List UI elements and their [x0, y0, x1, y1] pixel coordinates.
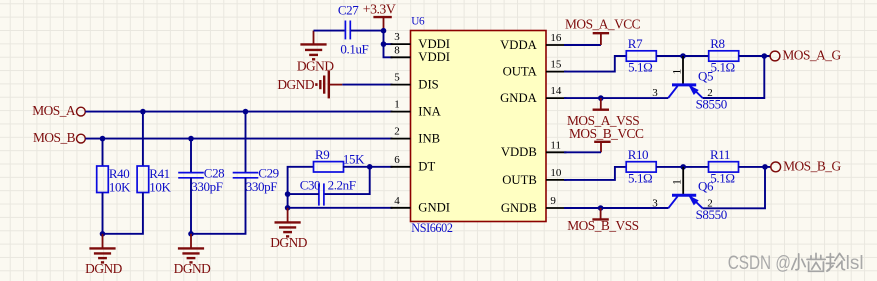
port MOS_B	[33, 130, 85, 145]
pin 5 DIS	[391, 72, 439, 92]
wire	[739, 55, 771, 57]
svg-text:DGND: DGND	[277, 77, 315, 92]
junction	[188, 231, 194, 237]
svg-text:11: 11	[550, 139, 561, 151]
junction	[100, 231, 106, 237]
svg-text:Q5: Q5	[698, 68, 713, 83]
svg-text:1: 1	[670, 179, 684, 185]
svg-text:9: 9	[550, 195, 556, 207]
wire	[564, 44, 601, 46]
resistor R11 5.1ohm	[709, 147, 739, 186]
wire	[245, 112, 247, 173]
svg-text:MOS_A: MOS_A	[32, 103, 76, 118]
power MOS_A_VSS	[567, 98, 639, 128]
junction	[762, 164, 768, 170]
ground DGND (C28/C29)	[174, 234, 212, 276]
wire	[656, 55, 708, 57]
wire	[314, 30, 345, 32]
svg-text:OUTB: OUTB	[502, 173, 537, 187]
wire	[102, 139, 104, 166]
svg-text:GNDB: GNDB	[501, 201, 537, 215]
wire	[288, 167, 314, 208]
wire	[564, 97, 668, 99]
svg-text:+3.3V: +3.3V	[363, 1, 396, 16]
port MOS_A	[32, 103, 85, 118]
svg-text:R9: R9	[315, 147, 329, 162]
svg-text:2.2nF: 2.2nF	[328, 178, 356, 193]
svg-text:16: 16	[550, 32, 562, 44]
wire	[103, 193, 143, 234]
junction	[140, 109, 146, 115]
svg-text:R10: R10	[628, 147, 648, 162]
wire	[142, 112, 144, 166]
pin 6 DT	[391, 154, 436, 174]
port MOS_B_G	[771, 159, 842, 174]
svg-text:MOS_B_VSS: MOS_B_VSS	[567, 218, 638, 233]
svg-text:6: 6	[394, 154, 400, 166]
power MOS_B_VSS	[567, 208, 638, 233]
svg-text:MOS_A_G: MOS_A_G	[782, 48, 841, 63]
junction	[381, 41, 387, 47]
svg-text:INA: INA	[418, 105, 441, 119]
pin 4 GNDI	[391, 195, 451, 215]
wire	[324, 167, 369, 194]
svg-text:8: 8	[394, 44, 400, 56]
junction	[381, 28, 387, 34]
svg-text:5.1Ω: 5.1Ω	[710, 170, 734, 185]
svg-text:R7: R7	[628, 36, 643, 51]
capacitor C28 330pF	[178, 165, 224, 194]
wire	[384, 43, 393, 45]
svg-text:VDDI: VDDI	[418, 50, 450, 64]
junction	[762, 53, 768, 59]
transistor Q6 S8550	[652, 167, 727, 222]
svg-text:DT: DT	[418, 160, 435, 174]
svg-text:NSI6602: NSI6602	[411, 221, 453, 235]
wire	[343, 166, 393, 168]
pin 16 VDDA	[500, 32, 566, 52]
capacitor C30	[300, 178, 356, 206]
svg-text:U6: U6	[411, 16, 425, 28]
resistor R40 10K	[97, 166, 131, 194]
svg-text:0.1uF: 0.1uF	[340, 42, 368, 57]
junction	[680, 164, 686, 170]
wire	[739, 166, 772, 168]
svg-text:MOS_A_VCC: MOS_A_VCC	[565, 17, 641, 32]
svg-text:3: 3	[394, 31, 400, 43]
power MOS_B_VCC	[569, 126, 644, 153]
svg-text:MOS_B: MOS_B	[33, 130, 76, 145]
resistor R10 5.1ohm	[626, 147, 656, 186]
junction	[598, 95, 604, 101]
wire	[85, 111, 392, 113]
svg-text:GNDA: GNDA	[500, 91, 537, 105]
svg-text:5.1Ω: 5.1Ω	[628, 60, 652, 75]
wire	[288, 207, 393, 209]
wire	[564, 207, 668, 209]
resistor R7 5.1ohm	[626, 36, 656, 75]
junction	[367, 164, 373, 170]
capacitor C27	[338, 2, 369, 56]
svg-text:5: 5	[394, 72, 400, 84]
svg-text:GNDI: GNDI	[418, 201, 450, 215]
svg-text:10K: 10K	[109, 179, 131, 194]
op-amp U6 NSI6602 gate driver IC body	[411, 16, 547, 235]
svg-text:C27: C27	[338, 2, 359, 17]
svg-text:DGND: DGND	[174, 261, 212, 276]
svg-text:330pF: 330pF	[191, 179, 222, 194]
ground DGND (DIS)	[277, 71, 342, 99]
pin 1 INA	[391, 99, 442, 119]
resistor R41 10K	[137, 166, 171, 194]
wire	[703, 56, 765, 98]
svg-text:lsl: lsl	[846, 253, 864, 274]
svg-text:5.1Ω: 5.1Ω	[711, 60, 735, 75]
svg-text:DGND: DGND	[270, 235, 308, 250]
wire	[703, 167, 765, 208]
svg-text:OUTA: OUTA	[503, 65, 538, 79]
pin 9 GNDB	[501, 195, 567, 215]
svg-text:15: 15	[550, 59, 562, 71]
wire	[102, 193, 104, 234]
svg-text:INB: INB	[418, 132, 440, 146]
svg-text:14: 14	[550, 85, 562, 97]
svg-text:MOS_B_VCC: MOS_B_VCC	[569, 126, 644, 141]
svg-text:DIS: DIS	[418, 78, 438, 92]
svg-text:VDDI: VDDI	[418, 37, 450, 51]
svg-text:1: 1	[669, 69, 683, 75]
svg-text:4: 4	[394, 195, 400, 207]
wire	[564, 56, 626, 72]
transistor Q5 S8550	[652, 56, 727, 112]
wire	[190, 178, 192, 234]
wire	[85, 138, 392, 140]
junction	[188, 136, 194, 142]
wire	[564, 151, 601, 153]
svg-text:R8: R8	[710, 36, 724, 51]
wire	[288, 193, 319, 195]
resistor R9 15K	[314, 147, 344, 172]
svg-text:10K: 10K	[149, 179, 171, 194]
svg-text:C30: C30	[300, 178, 320, 193]
svg-text:VDDA: VDDA	[500, 38, 537, 52]
pin 11 VDDB	[501, 139, 567, 159]
wire	[191, 178, 246, 234]
port MOS_A_G	[770, 48, 841, 63]
junction	[285, 205, 291, 211]
pin 8 VDDI	[391, 44, 451, 64]
wire	[656, 166, 708, 168]
junction	[598, 205, 604, 211]
capacitor C29 330pF	[233, 165, 279, 194]
resistor R8 5.1ohm	[709, 36, 739, 75]
svg-text:Q6: Q6	[698, 179, 714, 194]
svg-text:MOS_B_G: MOS_B_G	[783, 159, 841, 174]
wire	[384, 31, 393, 58]
svg-text:VDDB: VDDB	[501, 145, 537, 159]
svg-text:15K: 15K	[343, 152, 365, 167]
junction	[285, 191, 291, 197]
svg-text:CSDN @: CSDN @	[728, 253, 791, 274]
svg-text:1: 1	[394, 99, 400, 111]
wire	[342, 84, 392, 86]
wire	[564, 167, 626, 180]
svg-text:330pF: 330pF	[246, 179, 277, 194]
svg-text:10: 10	[550, 167, 562, 179]
pin 15 OUTA	[503, 59, 567, 79]
ground DGND (R40/R41)	[85, 234, 123, 276]
pin 10 OUTB	[502, 167, 566, 187]
pin 3 VDDI	[391, 31, 451, 51]
svg-text:2: 2	[394, 126, 400, 138]
junction	[243, 109, 249, 115]
ground DGND (C27 return)	[297, 31, 335, 74]
junction	[680, 53, 686, 59]
power MOS_A_VCC	[565, 17, 641, 46]
ground DGND (GNDI)	[270, 208, 308, 250]
svg-text:DGND: DGND	[85, 261, 123, 276]
wire	[190, 139, 192, 173]
pin 2 INB	[391, 126, 441, 146]
junction	[100, 136, 106, 142]
wire	[351, 30, 384, 32]
svg-text:5.1Ω: 5.1Ω	[628, 170, 652, 185]
svg-text:R11: R11	[710, 147, 730, 162]
watermark CSDN @xiaochilun lsl	[728, 253, 864, 274]
power +3.3V	[363, 1, 396, 30]
pin 14 GNDA	[500, 85, 566, 105]
